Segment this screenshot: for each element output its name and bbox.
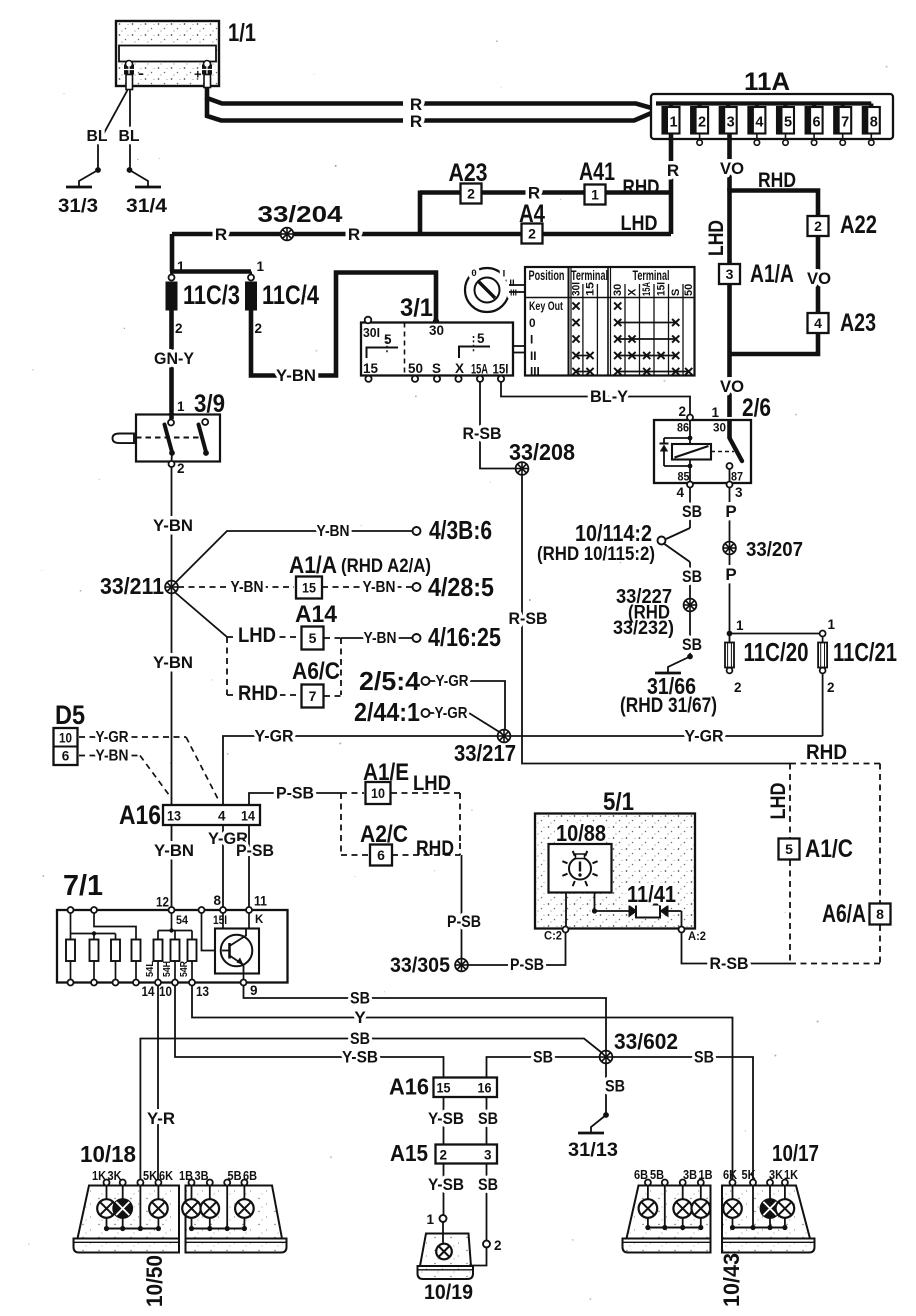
svg-text:30I: 30I (363, 325, 380, 340)
ground 31/4 (126, 167, 167, 217)
10/18 bulbs and bus left (97, 1186, 168, 1232)
wire R from fuse 1 (667, 134, 679, 235)
svg-text:1: 1 (669, 115, 677, 131)
wire BL-Y from 3/1 terminal 15I to relay (501, 382, 690, 414)
wire Y-GR main run (223, 727, 823, 807)
rheostat 10/88 (549, 820, 612, 893)
svg-text:Y-GR: Y-GR (255, 727, 294, 746)
svg-text:13: 13 (196, 984, 209, 999)
svg-text:LHD: LHD (413, 771, 451, 795)
svg-text:P-SB: P-SB (236, 841, 274, 860)
connector A6/A pin 8 (822, 900, 891, 928)
svg-text:54H: 54H (162, 961, 173, 977)
svg-text:2: 2 (177, 461, 185, 476)
wire SB to 10/18 and 33/602 (140, 1029, 601, 1179)
svg-text:13: 13 (167, 809, 181, 824)
svg-text:5: 5 (784, 115, 792, 131)
svg-text:R: R (410, 112, 422, 131)
svg-text:10/50: 10/50 (142, 1255, 167, 1307)
svg-text:10: 10 (59, 731, 72, 746)
svg-text:1: 1 (257, 259, 265, 274)
svg-text:5/1: 5/1 (603, 788, 634, 816)
splice 33/208 (509, 439, 575, 475)
svg-text:A1/C: A1/C (805, 835, 853, 863)
svg-text:10/43: 10/43 (719, 1253, 744, 1307)
connector A6/C pin 7 (292, 658, 341, 708)
svg-text:Y-SB: Y-SB (428, 1109, 464, 1128)
ignition position table (525, 267, 695, 379)
10/18 terminals 1B 3B 5B 6B (179, 1169, 257, 1186)
wire VO from fuse 3 (720, 134, 744, 192)
svg-text:11C/4: 11C/4 (262, 280, 319, 310)
svg-text:LHD: LHD (238, 623, 276, 647)
wires from A16 down to 7/1 (154, 825, 274, 908)
svg-text:1: 1 (591, 187, 599, 203)
svg-text:11/41: 11/41 (627, 881, 676, 907)
svg-text:P-SB: P-SB (447, 912, 481, 931)
lamp cluster 10/17 left housing (623, 1140, 820, 1253)
svg-text:K: K (255, 914, 264, 926)
svg-text:2: 2 (467, 186, 475, 202)
lamp 10/19 license plate (418, 1212, 502, 1304)
wire P from relay 87 (725, 488, 736, 542)
svg-text:2: 2 (255, 321, 263, 336)
fuse 11A-7 (834, 104, 851, 146)
svg-text:10: 10 (371, 786, 385, 801)
svg-text:A14: A14 (295, 601, 338, 628)
wire SB from A16 pin 16 to 33/602 (487, 1048, 600, 1077)
svg-text:(RHD 10/115:2): (RHD 10/115:2) (537, 544, 655, 565)
svg-text:15: 15 (437, 1081, 451, 1096)
wire Y-BN from D5 pin 6 (79, 748, 172, 800)
fuse 11/41 (566, 881, 682, 927)
7/1 transistor driver (202, 913, 260, 998)
connector A16 pins 13 4 14 (119, 800, 260, 830)
svg-text:54R: 54R (179, 960, 190, 977)
module 7/1 (57, 870, 288, 983)
svg-text:1: 1 (711, 405, 719, 420)
svg-text:12: 12 (156, 895, 169, 910)
svg-text:1: 1 (828, 617, 836, 632)
svg-text:15A: 15A (641, 282, 653, 296)
connector A1/C pin 5 (779, 835, 854, 863)
svg-text:15A: 15A (471, 362, 488, 377)
svg-text:Y-SB: Y-SB (342, 1048, 378, 1067)
connector A23 pin 2 (449, 159, 488, 204)
7/1 top pins (68, 893, 268, 927)
connector A1/E pin 10 (LHD) (341, 759, 460, 855)
splice 33/211 (100, 573, 178, 599)
svg-text:S: S (432, 361, 441, 376)
7/1 resistor bank left (66, 913, 141, 986)
svg-text:-: - (138, 65, 144, 81)
svg-text:31/4: 31/4 (126, 195, 167, 217)
svg-text:5: 5 (785, 841, 793, 857)
svg-text:9: 9 (250, 983, 258, 998)
svg-text:Y-GR: Y-GR (436, 673, 469, 690)
10/17 bulbs and bus right (723, 1186, 794, 1231)
10/18 terminals 1K 3K 5K 6K (92, 1169, 173, 1186)
fuse 11C/4 (245, 259, 319, 336)
svg-text:3: 3 (726, 266, 734, 282)
svg-text:A23: A23 (840, 309, 876, 337)
connector D5 (54, 700, 86, 765)
svg-text:2: 2 (734, 680, 742, 695)
connector A14 pin 5 (295, 601, 338, 650)
table row I marks (572, 335, 679, 342)
svg-text:Y-BN: Y-BN (276, 366, 316, 385)
wire from 11C/21 to Y-GR line (822, 674, 824, 737)
lamp cluster 10/18 right housing (186, 1186, 287, 1253)
splice 33/305 (390, 954, 468, 977)
svg-text:Y-BN: Y-BN (231, 579, 264, 596)
svg-text:LHD: LHD (704, 220, 728, 256)
wire R-SB from 5/1 A:2 (682, 933, 791, 974)
svg-text:RHD: RHD (416, 836, 454, 860)
wire VO RHD branch through A22 and A23 (730, 168, 832, 354)
wire battery positive R feeds (207, 88, 656, 131)
svg-text:A1/A: A1/A (289, 552, 337, 579)
splice 33/602 (600, 1029, 678, 1063)
svg-text:14: 14 (142, 984, 155, 999)
svg-text:8: 8 (870, 115, 878, 131)
svg-text:(RHD A2/A): (RHD A2/A) (341, 556, 431, 577)
svg-text:54L: 54L (145, 961, 156, 977)
wire P-SB from A16 pin 14 (249, 784, 341, 806)
wire RHD branch through A41 and A23 (420, 184, 671, 235)
relay 2/6 (654, 394, 771, 500)
connector A2/C pin 6 (RHD) (341, 821, 460, 866)
svg-text:11: 11 (254, 894, 267, 909)
svg-text:3: 3 (735, 485, 743, 500)
wire R-SB from 3/1 terminal 15A (463, 382, 518, 469)
svg-text:33/232): 33/232) (613, 618, 674, 639)
svg-text:15: 15 (302, 580, 316, 595)
svg-text:6: 6 (377, 847, 385, 863)
fuse 11A-2 (691, 104, 708, 146)
svg-text:4: 4 (755, 115, 763, 131)
svg-text:(RHD 31/67): (RHD 31/67) (620, 693, 717, 717)
svg-text:16: 16 (478, 1081, 492, 1096)
svg-text:III: III (530, 365, 540, 379)
svg-text:11C/3: 11C/3 (183, 280, 240, 310)
svg-text:4/3B:6: 4/3B:6 (429, 515, 492, 545)
svg-text:5: 5 (309, 630, 317, 646)
svg-text:33/204: 33/204 (258, 201, 343, 227)
svg-text:1: 1 (736, 618, 744, 633)
svg-text:Y-SB: Y-SB (428, 1175, 464, 1194)
10/18 bulbs and bus right (182, 1186, 254, 1232)
fuse 11A-1 (663, 104, 680, 134)
svg-text:D5: D5 (55, 700, 85, 730)
switch contact 10/114:2 (537, 520, 690, 565)
wire Y-BN from 33/211 to A16 pin 13 (153, 594, 193, 806)
wire Y-GR from D5 pin 10 (79, 729, 218, 799)
svg-text:6: 6 (62, 749, 70, 764)
svg-text:3/1: 3/1 (400, 294, 433, 322)
connector A22 pin 2 (808, 211, 878, 239)
svg-text:A2/C: A2/C (360, 821, 408, 848)
fuse 11A-4 (748, 104, 765, 146)
fuse 11A-5 (777, 104, 794, 146)
svg-text:4: 4 (676, 485, 684, 500)
svg-text:VO: VO (720, 377, 744, 396)
svg-text:30I: 30I (571, 282, 583, 296)
svg-text:SB: SB (350, 1029, 370, 1048)
svg-text:Terminal: Terminal (633, 268, 670, 284)
svg-text:3: 3 (727, 115, 735, 131)
connector 2/44:1 (354, 697, 501, 733)
svg-text:33/208: 33/208 (509, 439, 575, 465)
svg-text:A23: A23 (449, 159, 488, 187)
10/17 bulbs and bus left (639, 1186, 710, 1231)
table row II marks (572, 352, 679, 359)
connector A15 pins 2 3 (390, 1140, 497, 1166)
svg-text:Y-BN: Y-BN (317, 523, 350, 540)
svg-text:R-SB: R-SB (463, 424, 502, 443)
fuse 11C/3 (166, 259, 241, 336)
wire R-SB down from 33/208 (509, 475, 791, 764)
svg-text:Y-BN: Y-BN (363, 579, 396, 596)
svg-text:Position: Position (529, 268, 565, 284)
svg-text:Y-GR: Y-GR (685, 727, 724, 746)
svg-text:2: 2 (175, 321, 183, 336)
svg-text:0: 0 (529, 316, 536, 330)
wire SB to ground 31/66 (682, 612, 702, 656)
svg-text:A16: A16 (119, 800, 161, 830)
svg-text:30: 30 (713, 421, 726, 435)
svg-text:15I: 15I (213, 915, 227, 927)
svg-text:31/3: 31/3 (58, 195, 98, 217)
wire Y-BN through A1/A 15 to 4/28:5 (178, 579, 294, 596)
svg-text:7: 7 (841, 115, 849, 131)
svg-text:VO: VO (807, 269, 831, 288)
svg-text:P-SB: P-SB (276, 784, 314, 803)
splice 33/227 (RHD 33/232) (613, 585, 696, 639)
svg-text:P: P (725, 565, 736, 584)
svg-text:SB: SB (478, 1109, 498, 1128)
ignition key symbol (465, 268, 525, 312)
svg-text:A:2: A:2 (688, 931, 706, 943)
svg-text:15: 15 (363, 361, 378, 376)
svg-text:4/16:25: 4/16:25 (428, 622, 501, 652)
splice 33/207 (723, 538, 803, 561)
svg-text:33/217: 33/217 (454, 740, 516, 766)
wire R down to 11C/3 and 11C/4 (170, 234, 251, 278)
splice 33/204 (215, 201, 360, 244)
splice 33/217 (454, 730, 516, 766)
fuse 11A-3 (720, 104, 737, 134)
svg-text:33/602: 33/602 (614, 1029, 678, 1054)
svg-text:VO: VO (720, 159, 744, 178)
wire Y-BN from 3/9 to splice 33/211 (153, 467, 193, 581)
svg-text:P: P (725, 502, 736, 521)
svg-text:A4: A4 (519, 200, 545, 228)
svg-text:Key Out: Key Out (529, 299, 563, 313)
svg-text:R-SB: R-SB (509, 609, 548, 628)
wire P-SB down to splice 33/305 (447, 855, 481, 959)
lamp cluster 10/17 right housing (722, 1186, 815, 1253)
svg-text:R: R (215, 225, 227, 244)
svg-text:10/17: 10/17 (772, 1140, 819, 1166)
fuse box 11A (651, 68, 893, 139)
svg-text:RHD: RHD (758, 168, 796, 192)
svg-text:SB: SB (533, 1048, 553, 1067)
svg-text:X: X (627, 288, 639, 296)
svg-text:Y-BN: Y-BN (153, 653, 193, 672)
module 5/1 (535, 788, 695, 929)
svg-text:Y-BN: Y-BN (364, 630, 397, 647)
svg-text:1/1: 1/1 (228, 19, 256, 47)
svg-text:33/305: 33/305 (390, 954, 450, 977)
wire Y-SB from 7/1 pin 10 to A16 pin 15 (175, 986, 444, 1077)
lamp cluster 10/18 left housing (74, 1141, 180, 1253)
svg-text:SB: SB (478, 1175, 498, 1194)
svg-text:RHD: RHD (238, 681, 278, 705)
fuse 11A-6 (806, 104, 823, 146)
5/1 pins C:2 and A:2 (544, 927, 706, 944)
wire SB to splice 33/227 (682, 562, 702, 599)
wire P-SB from 33/305 to 5/1 C:2 (468, 932, 566, 974)
svg-text:Y-BN: Y-BN (154, 841, 194, 860)
svg-text:A15: A15 (390, 1140, 428, 1166)
svg-text:I: I (503, 269, 506, 280)
svg-text:BL-Y: BL-Y (590, 387, 629, 406)
svg-text:SB: SB (605, 1077, 625, 1096)
svg-text:2: 2 (698, 115, 706, 131)
wire Y-BN from 11C/4 to 3/1 terminal 30 (251, 273, 439, 386)
battery 1/1 (116, 19, 256, 90)
svg-text:4: 4 (218, 809, 226, 824)
svg-text:Y: Y (354, 1008, 366, 1027)
svg-text:50: 50 (683, 284, 695, 296)
connector A23 pin 4 (808, 309, 877, 337)
svg-text:15: 15 (585, 282, 597, 296)
svg-text:2: 2 (678, 404, 686, 419)
wire Y-BN to 4/3B:6 (176, 515, 493, 583)
svg-text:2/5:4: 2/5:4 (359, 666, 421, 696)
svg-text:54: 54 (176, 915, 189, 927)
wire SB from 33/602 to ground 31/13 (605, 1064, 625, 1114)
svg-text:30: 30 (612, 284, 624, 296)
10/17 terminals 6K 5K 3K 1K (723, 1168, 798, 1186)
table row Key Out marks (572, 302, 621, 309)
svg-text:50: 50 (408, 361, 423, 376)
svg-text:86: 86 (677, 421, 689, 435)
ground 31/13 (568, 1112, 618, 1161)
svg-text:A41: A41 (579, 158, 615, 186)
svg-text:2: 2 (440, 1148, 448, 1163)
svg-text:8: 8 (876, 906, 884, 922)
svg-text:11A: 11A (744, 68, 790, 96)
svg-text:7: 7 (309, 688, 317, 704)
ground 31/3 (58, 167, 101, 217)
svg-text:P-SB: P-SB (510, 955, 544, 974)
svg-text:A6/C: A6/C (292, 658, 340, 685)
wire LHD branch through A4 (172, 211, 671, 235)
svg-text:7/1: 7/1 (63, 870, 103, 902)
svg-text:SB: SB (694, 1048, 714, 1067)
svg-text:S: S (670, 289, 682, 296)
svg-text:X: X (455, 361, 464, 376)
table row 0 marks (572, 319, 679, 326)
svg-text:2: 2 (814, 218, 822, 234)
svg-text:SB: SB (682, 502, 702, 521)
label 10/50 (142, 1255, 167, 1307)
svg-text:10/18: 10/18 (80, 1141, 136, 1167)
svg-text:Y-BN: Y-BN (153, 516, 193, 535)
wires Y-SB and SB to A15 (428, 1097, 498, 1144)
wire battery negative BL leads (87, 90, 140, 168)
svg-text:+: + (194, 67, 202, 82)
connector A1/A pin 3 (719, 260, 794, 288)
svg-text:2: 2 (827, 680, 835, 695)
svg-text:BL: BL (119, 128, 140, 145)
svg-text:15I: 15I (656, 282, 668, 296)
svg-text:GN-Y: GN-Y (154, 349, 195, 368)
svg-text:1: 1 (426, 1212, 434, 1227)
svg-text:A6/A: A6/A (822, 900, 866, 928)
svg-text:A1/A: A1/A (750, 260, 794, 288)
ignition switch 3/1 (361, 294, 526, 382)
svg-text:8: 8 (213, 893, 221, 908)
svg-text:2/6: 2/6 (742, 394, 771, 422)
wire SB from relay 85 (682, 488, 702, 529)
fuse 11C/21 (818, 617, 897, 695)
svg-text:BL: BL (87, 128, 108, 145)
wire link to fuse 11C/21 (730, 631, 826, 637)
connector A4 pin 2 (519, 200, 545, 244)
svg-text:10/19: 10/19 (424, 1280, 473, 1304)
svg-text:RHD: RHD (623, 175, 660, 199)
svg-text:RHD: RHD (806, 740, 847, 764)
7/1 resistors 54L 54H 54R (142, 913, 210, 999)
wire SB from 33/602 to 10/17 (613, 1048, 754, 1180)
svg-text:33/207: 33/207 (746, 538, 803, 561)
svg-text:SB: SB (682, 635, 702, 654)
svg-text:1: 1 (177, 259, 185, 274)
svg-text:LHD: LHD (766, 783, 790, 820)
svg-text:R: R (667, 161, 679, 180)
switch 3/9 (113, 390, 226, 476)
svg-text:4: 4 (814, 315, 822, 331)
svg-text:Terminal: Terminal (571, 268, 608, 284)
label 10/43 (719, 1253, 744, 1307)
svg-text:I: I (530, 333, 533, 347)
svg-text:31/13: 31/13 (568, 1139, 618, 1161)
svg-text:11C/21: 11C/21 (833, 637, 897, 667)
connector 2/5:4 (359, 666, 505, 730)
svg-text:5: 5 (384, 332, 392, 347)
svg-text:33/211: 33/211 (100, 573, 164, 599)
connector A1/A pin 15 (RHD A2/A) (289, 552, 431, 599)
svg-text:Y-R: Y-R (147, 1109, 175, 1128)
svg-text:87: 87 (731, 470, 743, 484)
svg-text:A22: A22 (840, 211, 877, 239)
svg-text:6: 6 (813, 115, 821, 131)
wires Y-SB and SB to lamp 10/19 (428, 1164, 498, 1241)
svg-text:10: 10 (159, 984, 172, 999)
svg-text:Y-BN: Y-BN (96, 748, 129, 765)
fuse 11C/20 (725, 618, 809, 695)
svg-text:11C/20: 11C/20 (744, 637, 809, 667)
wire Y from 7/1 pin 13 to 10/17 (192, 986, 733, 1180)
svg-text:R-SB: R-SB (710, 954, 749, 973)
svg-text:C:2: C:2 (544, 931, 562, 943)
wire P to fuse 11C/20 (725, 555, 736, 643)
svg-text:Y-GR: Y-GR (435, 705, 468, 722)
wire RHD branch via A6/C (227, 681, 297, 705)
